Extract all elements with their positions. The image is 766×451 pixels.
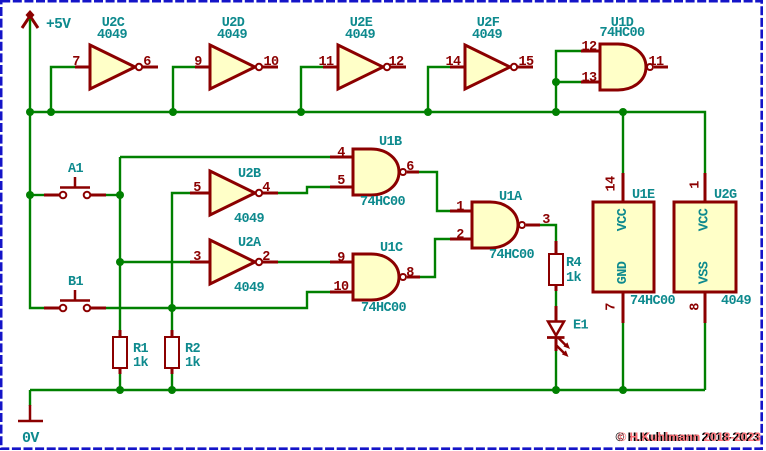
resistor R4	[549, 241, 563, 291]
junction U2D input	[169, 108, 177, 116]
svg-text:8: 8	[406, 266, 414, 281]
svg-text:VCC: VCC	[616, 208, 631, 231]
svg-text:10: 10	[263, 55, 279, 70]
wire R2 bottom lead	[171, 374, 173, 390]
inverter U2F	[450, 45, 533, 89]
wire LED to 0V bus	[555, 350, 557, 390]
pushbutton B1	[44, 290, 106, 311]
wire U1A output to R4	[540, 225, 556, 241]
wire U1E VCC drop	[622, 112, 624, 173]
svg-text:VSS: VSS	[698, 261, 713, 284]
wire U2C input drop	[51, 67, 75, 112]
svg-text:1k: 1k	[185, 356, 201, 371]
junction A1 rail	[26, 191, 34, 199]
nand U1C	[330, 254, 420, 300]
svg-text:VCC: VCC	[698, 208, 713, 231]
svg-text:4049: 4049	[472, 28, 503, 43]
inverter U2A	[190, 240, 278, 284]
power symbol +5V arrow	[22, 10, 38, 28]
svg-text:11: 11	[648, 55, 664, 70]
junction node B / B1	[168, 304, 176, 312]
junction U1E VCC	[619, 108, 627, 116]
svg-text:2: 2	[456, 228, 464, 243]
inverter U2C	[75, 45, 158, 89]
svg-text:U1E: U1E	[632, 188, 655, 203]
wire A1 node to U2A input	[120, 261, 190, 263]
svg-text:U1B: U1B	[379, 135, 402, 150]
svg-text:74HC00: 74HC00	[360, 195, 406, 210]
node B vertical R2/U2B	[172, 193, 190, 330]
svg-text:U2A: U2A	[238, 236, 262, 251]
junction U1E GND / 0V	[619, 386, 627, 394]
wire R4 to LED	[555, 291, 557, 307]
pushbutton A1	[44, 177, 106, 198]
wire U2F input drop	[428, 67, 450, 112]
wire U1D input drop	[556, 51, 581, 112]
svg-text:4: 4	[262, 181, 270, 196]
wire U2B output to U1B pin5	[278, 187, 330, 193]
svg-text:E1: E1	[573, 319, 589, 334]
svg-text:6: 6	[143, 55, 151, 70]
junction U2E input	[297, 108, 305, 116]
svg-text:2: 2	[262, 250, 270, 265]
svg-text:R1: R1	[133, 342, 149, 357]
resistor R2	[165, 330, 179, 374]
wire U2A output to U1C pin9	[278, 261, 330, 263]
wire U1E GND to bus	[622, 323, 624, 390]
wire +5V top bus	[30, 112, 705, 173]
wire U2E input drop	[301, 67, 323, 112]
svg-text:U1C: U1C	[380, 241, 403, 256]
svg-text:4: 4	[337, 146, 345, 161]
svg-text:1k: 1k	[566, 271, 582, 286]
svg-text:1: 1	[689, 181, 704, 189]
svg-text:3: 3	[542, 213, 550, 228]
junction U1D input	[552, 108, 560, 116]
wire 0V bottom bus	[30, 389, 705, 391]
wire U2D input drop	[173, 67, 195, 112]
wire U1C output to U1A pin2	[420, 239, 450, 277]
svg-text:© H.Kuhlmann 2018-2023: © H.Kuhlmann 2018-2023	[618, 430, 762, 444]
wire +5V left rail down to B1	[30, 112, 44, 308]
svg-text:3: 3	[193, 250, 201, 265]
svg-text:6: 6	[406, 160, 414, 175]
power block U1E	[593, 173, 654, 323]
junction node A / U2A feed	[116, 258, 124, 266]
svg-text:74HC00: 74HC00	[630, 294, 676, 309]
nand U1D	[581, 44, 668, 90]
junction U1D pin13	[552, 78, 560, 86]
svg-text:1k: 1k	[133, 356, 149, 371]
junction R2 / 0V	[168, 386, 176, 394]
wire ground drop	[29, 390, 31, 406]
ground symbol 0V	[18, 405, 43, 421]
svg-text:10: 10	[333, 280, 349, 295]
junction LED / 0V	[552, 386, 560, 394]
svg-text:1: 1	[456, 200, 464, 215]
svg-text:4049: 4049	[217, 28, 248, 43]
svg-text:4049: 4049	[234, 281, 265, 296]
wire U2G VSS to bus	[704, 323, 706, 390]
svg-text:4049: 4049	[97, 28, 128, 43]
wire A1 right to node	[106, 194, 120, 196]
inverter U2E	[323, 45, 406, 89]
svg-text:8: 8	[689, 303, 704, 311]
svg-text:+5V: +5V	[46, 17, 71, 33]
svg-text:4049: 4049	[234, 212, 265, 227]
svg-text:74HC00: 74HC00	[361, 301, 407, 316]
resistor R1	[113, 330, 127, 374]
svg-text:7: 7	[605, 303, 620, 311]
svg-text:0V: 0V	[22, 430, 39, 447]
junction U2C input	[47, 108, 55, 116]
power block U2G	[674, 173, 736, 323]
junction R1 / 0V	[116, 386, 124, 394]
wire R1 bottom lead	[119, 374, 121, 390]
svg-text:14: 14	[605, 176, 620, 192]
svg-text:A1: A1	[68, 162, 84, 177]
junction +5V rail / bus	[26, 108, 34, 116]
svg-text:4049: 4049	[345, 28, 376, 43]
wire A1 left feed	[30, 194, 44, 196]
LED E1	[547, 306, 570, 357]
svg-text:12: 12	[581, 40, 597, 55]
inverter U2D	[195, 45, 278, 89]
svg-text:U2B: U2B	[238, 167, 261, 182]
inverter U2B	[190, 171, 278, 215]
svg-text:U1A: U1A	[499, 190, 523, 205]
svg-text:R4: R4	[566, 256, 582, 271]
svg-text:U2G: U2G	[714, 188, 737, 203]
svg-text:74HC00: 74HC00	[599, 26, 645, 41]
node A vertical	[119, 157, 121, 330]
svg-text:9: 9	[337, 251, 345, 266]
nand U1B	[330, 149, 419, 195]
wire A1 node to U1B pin4	[120, 156, 330, 158]
svg-text:B1: B1	[68, 275, 84, 290]
wire B1 right run to U1C pin10	[106, 292, 330, 308]
wire U1B output to U1A pin1	[419, 172, 450, 211]
svg-text:14: 14	[445, 55, 461, 70]
junction node A / A1	[116, 191, 124, 199]
svg-text:5: 5	[337, 174, 345, 189]
svg-text:R2: R2	[185, 342, 201, 357]
copyright text	[616, 430, 762, 444]
svg-text:15: 15	[518, 55, 534, 70]
nand U1A	[450, 202, 540, 248]
svg-text:9: 9	[194, 55, 202, 70]
wire U1D pin13 feed	[556, 81, 581, 83]
svg-text:7: 7	[72, 55, 80, 70]
svg-text:5: 5	[193, 181, 201, 196]
svg-text:74HC00: 74HC00	[489, 248, 535, 263]
junction U2F input	[424, 108, 432, 116]
svg-text:13: 13	[581, 71, 597, 86]
wire +5V stem from arrow to bus	[29, 19, 31, 112]
svg-text:GND: GND	[616, 261, 631, 284]
svg-text:11: 11	[318, 55, 334, 70]
svg-text:4049: 4049	[721, 294, 752, 309]
svg-text:12: 12	[388, 55, 404, 70]
